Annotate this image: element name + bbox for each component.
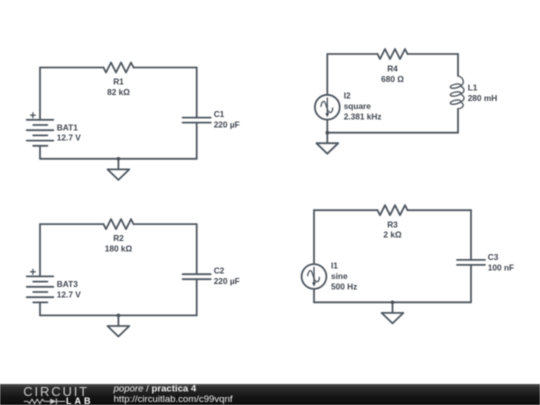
- wire left down to source: [313, 210, 315, 264]
- svg-text:12.7 V: 12.7 V: [57, 289, 81, 299]
- wire source to bottom: [313, 289, 315, 302]
- wire right down to capacitor: [196, 224, 198, 274]
- battery BAT3: [27, 276, 54, 302]
- svg-text:R4: R4: [387, 63, 398, 73]
- svg-text:100 nF: 100 nF: [488, 262, 514, 272]
- ground: [108, 159, 130, 180]
- logo diode cathode bar: [55, 399, 57, 405]
- capacitor C3: [457, 260, 485, 265]
- wire capacitor to bottom: [196, 279, 198, 315]
- wire capacitor to bottom: [470, 265, 472, 302]
- svg-text:500 Hz: 500 Hz: [331, 281, 357, 291]
- node junction dot: [117, 314, 121, 318]
- logo diode: [50, 399, 56, 405]
- wire inductor to bottom: [457, 109, 459, 133]
- wire top-left segment: [314, 209, 378, 211]
- svg-text:C3: C3: [488, 252, 499, 262]
- svg-text:180 kΩ: 180 kΩ: [105, 244, 133, 254]
- wire top-right segment: [134, 67, 197, 69]
- svg-text:I2: I2: [344, 91, 351, 101]
- svg-text:I1: I1: [331, 261, 338, 271]
- svg-text:R3: R3: [387, 219, 398, 229]
- svg-text:82 kΩ: 82 kΩ: [107, 87, 130, 97]
- wire right down to inductor: [457, 54, 459, 76]
- node junction dot: [326, 131, 330, 135]
- svg-text:L1: L1: [468, 83, 478, 93]
- wire bottom: [40, 158, 197, 160]
- wire bottom: [40, 314, 197, 316]
- wire battery to bottom: [39, 302, 41, 315]
- wire left down to battery: [39, 224, 41, 276]
- inductor L1: [450, 76, 464, 109]
- ground: [382, 302, 404, 323]
- svg-text:220 µF: 220 µF: [214, 119, 240, 129]
- wire source to bottom: [326, 120, 328, 133]
- svg-text:R2: R2: [113, 233, 124, 243]
- svg-text:C2: C2: [214, 266, 225, 276]
- svg-text:http://circuitlab.com/c99vqnf: http://circuitlab.com/c99vqnf: [114, 394, 233, 405]
- current source I1: [302, 264, 327, 289]
- svg-text:square: square: [344, 101, 372, 111]
- svg-text:sine: sine: [331, 271, 348, 281]
- wire top-left segment: [327, 53, 377, 55]
- ground: [316, 133, 338, 154]
- wire top-right segment: [408, 209, 472, 211]
- wire top-right segment: [134, 223, 197, 225]
- battery plus sign: [30, 269, 36, 275]
- svg-text:popore / practica 4: popore / practica 4: [113, 384, 197, 395]
- svg-text:R1: R1: [113, 77, 124, 87]
- wire battery to bottom: [39, 146, 41, 159]
- svg-text:C1: C1: [214, 109, 225, 119]
- svg-text:680 Ω: 680 Ω: [381, 74, 404, 84]
- resistor R3: [378, 205, 408, 215]
- wire bottom: [314, 301, 471, 303]
- wire right down to capacitor: [196, 68, 198, 118]
- node junction dot: [391, 301, 395, 305]
- svg-text:2.381 kHz: 2.381 kHz: [344, 111, 382, 121]
- battery BAT1: [27, 120, 54, 146]
- wire right down to capacitor: [470, 210, 472, 260]
- node junction dot: [117, 157, 121, 161]
- wire bottom: [327, 132, 458, 134]
- ground: [108, 315, 130, 336]
- svg-text:LAB: LAB: [66, 396, 94, 405]
- battery plus sign: [30, 112, 36, 118]
- wire top-right segment: [408, 53, 459, 55]
- resistor R4: [378, 49, 408, 59]
- svg-text:12.7 V: 12.7 V: [57, 133, 81, 143]
- resistor R1: [104, 63, 134, 73]
- logo wire after diode: [56, 400, 65, 402]
- svg-text:BAT1: BAT1: [57, 122, 78, 132]
- wire capacitor to bottom: [196, 123, 198, 159]
- wire left down to source: [326, 54, 328, 95]
- wire top-left segment: [40, 223, 104, 225]
- resistor R2: [104, 219, 134, 229]
- wire top-left segment: [40, 67, 104, 69]
- svg-text:BAT3: BAT3: [57, 279, 78, 289]
- current source I2: [315, 95, 340, 120]
- logo resistor zigzag: [28, 399, 50, 403]
- wire left down to battery: [39, 68, 41, 120]
- capacitor C2: [183, 274, 211, 279]
- svg-text:2 kΩ: 2 kΩ: [383, 230, 402, 240]
- capacitor C1: [183, 118, 211, 123]
- logo wire: [24, 400, 28, 402]
- svg-text:280 mH: 280 mH: [468, 93, 498, 103]
- svg-text:220 µF: 220 µF: [214, 276, 240, 286]
